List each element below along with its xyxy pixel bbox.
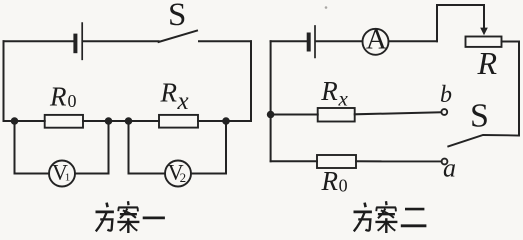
svg-text:S: S	[168, 0, 186, 33]
terminal a open circle	[442, 159, 448, 165]
ammeter A circle	[363, 29, 389, 55]
svg-text:a: a	[443, 153, 456, 182]
wire Rx branch (right)	[271, 114, 318, 116]
char 一	[143, 216, 165, 219]
voltmeter V2 left lead	[129, 121, 166, 174]
battery B2 thick plate	[307, 35, 311, 50]
voltmeter V1 circle	[49, 161, 75, 187]
wire rheostat to right edge	[502, 41, 520, 43]
resistor R0 box (right circuit)	[317, 155, 356, 168]
wire middle row right	[198, 120, 226, 122]
switch S1 blade	[159, 31, 197, 42]
wire ammeter to riser	[389, 40, 438, 42]
node dot junction right	[222, 117, 230, 125]
battery B1 thin plate	[81, 23, 83, 59]
svg-text:S: S	[470, 98, 489, 135]
resistor R0 box (left circuit)	[45, 115, 83, 128]
wire between R0 and Rx	[83, 120, 159, 122]
svg-text:R: R	[160, 78, 178, 108]
wire top-left segment to battery	[4, 40, 74, 42]
resistor Rx box (left circuit)	[159, 115, 198, 128]
voltmeter V2 circle	[165, 161, 191, 187]
caption 方案一 (scheme one) drawn strokes	[96, 201, 165, 233]
terminal b open circle	[441, 109, 447, 115]
wire left edge of right loop	[270, 41, 272, 161]
svg-text:1: 1	[65, 172, 71, 184]
battery B2 thin plate	[314, 26, 316, 57]
wire middle row left	[15, 120, 45, 122]
svg-text:A: A	[366, 24, 387, 56]
wire R0 box to terminal a	[356, 160, 441, 162]
voltmeter V1 right lead	[75, 121, 109, 174]
wire left edge of left loop	[4, 41, 15, 121]
svg-text:2: 2	[180, 170, 187, 185]
wire right edge of left loop	[226, 41, 251, 121]
svg-text:R: R	[49, 82, 67, 112]
svg-text:R: R	[320, 76, 338, 106]
node dot junction V2 left	[125, 117, 133, 125]
wire R0 branch (right)	[271, 160, 317, 162]
wire top-left to battery (right)	[271, 40, 307, 42]
voltmeter V1 left lead	[15, 121, 50, 174]
svg-text:0: 0	[339, 176, 348, 196]
char 案	[127, 201, 130, 205]
char 方	[107, 203, 108, 208]
resistor Rx box (right circuit)	[318, 108, 355, 122]
voltmeter V2 right lead	[191, 121, 226, 174]
wire right edge down to switch	[518, 42, 520, 136]
wire rheostat slider bracket	[437, 5, 484, 41]
node dot junction left	[11, 117, 19, 125]
wire battery to ammeter	[316, 40, 363, 42]
wire Rx box to terminal b	[355, 112, 441, 114]
svg-text:x: x	[338, 87, 349, 111]
caption 方案二 (scheme two) drawn strokes	[354, 201, 427, 233]
svg-text:R: R	[477, 45, 498, 81]
svg-text:x: x	[177, 88, 189, 115]
switch S2 blade	[448, 135, 519, 146]
rheostat R slider arrowhead	[480, 28, 488, 36]
node dot junction between R0 and V1 right	[105, 117, 113, 125]
svg-text:b: b	[440, 82, 452, 108]
svg-text:R: R	[321, 166, 339, 196]
node dot junction left edge (right circuit)	[267, 111, 275, 119]
char 二 top bar	[405, 208, 424, 211]
battery B1 thick plate	[73, 36, 77, 52]
char 二 bottom bar	[401, 224, 427, 227]
speck artifact	[325, 6, 328, 9]
rheostat R box	[466, 37, 502, 47]
svg-text:0: 0	[68, 91, 77, 111]
wire battery to switch	[83, 40, 158, 42]
wire switch right contact	[199, 40, 251, 42]
